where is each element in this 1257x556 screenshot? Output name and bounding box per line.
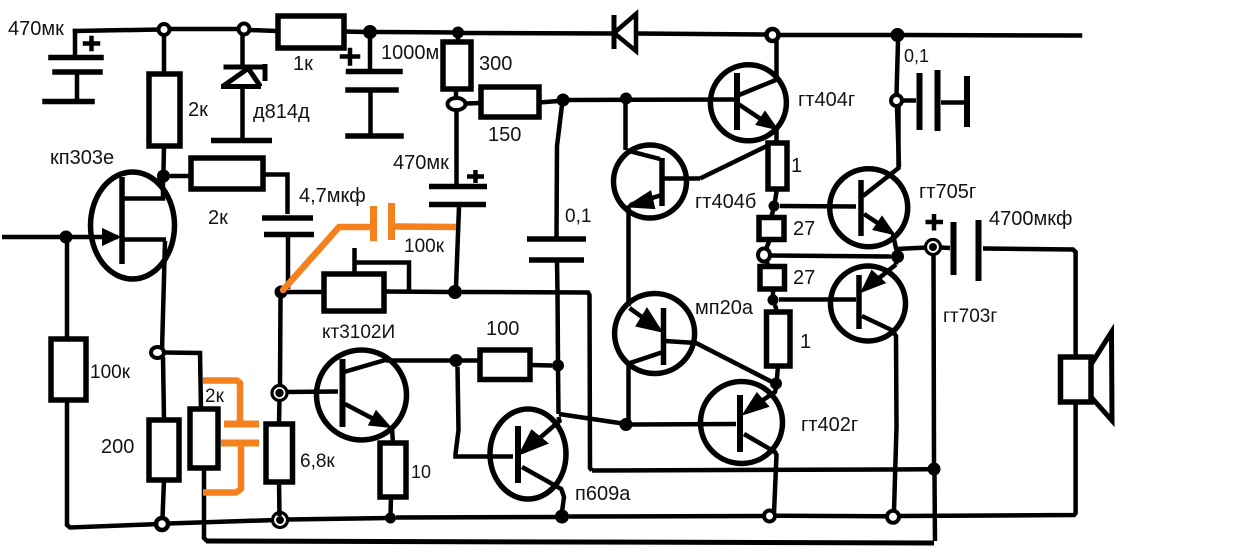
resistor R11 10 [380, 443, 406, 497]
transistor Q3 emitter arrow [757, 113, 776, 129]
wire node Z to гт703г base [779, 297, 856, 302]
wire node to R300 top [456, 36, 461, 42]
wire R16 to node AA [777, 366, 778, 378]
resistor R7 2к bottom [190, 409, 218, 468]
transistor Q1 кп303е body [91, 172, 175, 279]
node Z filled (773,300) [768, 295, 779, 306]
capacitor C2 1000м plate 2 [348, 87, 396, 93]
wire input node down to R6 [65, 243, 70, 339]
svg-text:27: 27 [793, 218, 815, 240]
transistor Q9 collector [522, 467, 564, 512]
speaker LS1 horn [1091, 332, 1112, 421]
transistor Q2 emitter arrow [370, 412, 389, 427]
orange capacitor mod2 plate 2 [221, 440, 259, 447]
wire node100 to base гт404г [569, 97, 733, 102]
node V filled (456,360.5) [450, 354, 463, 367]
transistor Q2 кт3102И body [317, 350, 407, 440]
transistor Q2 base bar [340, 359, 346, 427]
wire vertical x280 [278, 297, 283, 387]
orange capacitor mod2 plate 1 [224, 421, 259, 428]
zener VD1 cathode hook [263, 64, 268, 81]
wire Q3 emitter to R13 [774, 128, 779, 142]
svg-text:100к: 100к [90, 362, 131, 383]
transistor Q3 collector [739, 40, 777, 95]
transistor Q1 gate arrow [103, 230, 119, 245]
node AE dotring (933,247) [926, 240, 941, 255]
wire source node branch right [164, 353, 201, 411]
node I filled (626,98) [620, 93, 632, 105]
node F filled (897.5,35) [891, 28, 905, 42]
svg-text:4700мкф: 4700мкф [989, 208, 1072, 230]
wire vertical x935 lower [932, 475, 937, 541]
wire R5 to C6 lead [263, 175, 288, 215]
transistor Q5 emitter [630, 308, 660, 330]
resistor R16 1 [767, 312, 791, 366]
node R open (893,516.8) [887, 511, 899, 523]
transistor Q8 гт703г body [831, 266, 906, 341]
wire node to node [376, 30, 458, 35]
wire rail B seg4 [569, 514, 764, 519]
resistor R9 6,8к [266, 424, 293, 482]
node Q open (769.5,516) [764, 511, 775, 522]
svg-text:1к: 1к [293, 53, 313, 75]
node D filled (458,32.5) [452, 27, 464, 39]
capacitor C2 1000м end bar [348, 133, 401, 139]
wire R11 bottom lead [388, 497, 393, 514]
svg-text:0,1: 0,1 [565, 206, 591, 227]
capacitor C6 bottom lead [286, 237, 291, 289]
resistor R13 1 [768, 143, 787, 189]
transistor Q6 emitter arrow [745, 395, 767, 414]
svg-text:1: 1 [800, 331, 811, 353]
svg-text:4,7мкф: 4,7мкф [299, 185, 366, 207]
wire diode to node [638, 34, 766, 35]
wire vertical x558 [557, 262, 559, 414]
transistor Q1 source lead [124, 240, 166, 352]
wire R150 to node100 [539, 101, 558, 103]
node W filled (558,365.5) [552, 360, 564, 372]
transistor Q3 гт404г body [710, 65, 786, 141]
wire top right end [904, 33, 1080, 38]
wire node X to гт705г base [780, 204, 856, 209]
wire node104 to R150 [466, 101, 481, 106]
node Y open (764,255) [758, 249, 770, 262]
transistor Q5 мп20а body [615, 294, 695, 374]
svg-text:кт3102И: кт3102И [322, 322, 395, 343]
zener VD1 bottom lead [240, 89, 245, 138]
svg-text:гт402г: гт402г [801, 414, 858, 436]
wire node1 down to R1 [162, 34, 167, 74]
node T filled (281,292) [275, 286, 288, 299]
capacitor C2 1000м bottom lead [368, 92, 373, 133]
transistor Q6 emitter [748, 388, 776, 410]
wire node Y to R15 [766, 261, 769, 267]
transistor Q8 emitter arrow [863, 272, 884, 291]
wire node to node top right [779, 33, 891, 38]
wire node100 down to C5 [557, 105, 563, 237]
wire R9 top lead [277, 398, 282, 424]
resistor R15 27 [760, 267, 785, 290]
zener VD1 anode triangle [221, 69, 261, 87]
wire output node to cap node [896, 248, 927, 250]
transistor Q2 collector [344, 360, 450, 373]
resistor R1 2к vertical [149, 74, 180, 146]
wire rail B seg5 [775, 514, 887, 519]
wire rail C bottom [206, 541, 934, 543]
svg-text:470мк: 470мк [393, 152, 449, 174]
wire node V down to п609а base [456, 367, 514, 457]
node J filled input (66,237) [60, 231, 73, 244]
transistor Q3 base bar [734, 73, 740, 130]
svg-text:п609а: п609а [575, 483, 631, 505]
transistor Q5 base bar [661, 308, 667, 365]
capacitor C2 1000м plate 1 [349, 69, 401, 75]
wire Q4 emitter down to мп20а [626, 206, 631, 306]
wire rail A [592, 469, 929, 470]
wire rail B seg6 to speaker [899, 403, 1076, 516]
svg-text:0,1: 0,1 [904, 46, 929, 66]
wire gate node to bar [66, 235, 118, 240]
node AD output filled (897.5,256.5) [891, 250, 904, 263]
wire C8 to speaker top [983, 249, 1076, 357]
resistor R6 100к [51, 339, 86, 400]
svg-text:200: 200 [101, 436, 134, 458]
node H filled (563,100) [557, 94, 570, 107]
capacitor C6 4,7мкф plate 2 [264, 232, 314, 238]
resistor R14 27 [759, 218, 784, 240]
node S dotring (279.5,393) [272, 386, 287, 401]
node X filled (774,206) [769, 201, 780, 212]
transistor Q4 emitter [630, 196, 660, 206]
node E open (772.5,35) [767, 29, 779, 41]
transistor Q5 base lead diagonal [665, 341, 776, 384]
transistor Q6 base bar [737, 395, 743, 452]
node O filled (390.5,518) [385, 513, 396, 524]
svg-text:гт404г: гт404г [798, 89, 855, 111]
capacitor C7 0,1 plate 1 [917, 73, 923, 130]
node A open (164,29.5) [159, 24, 170, 35]
wire node U to corner x589 [462, 292, 592, 471]
orange wire diagonal and left lead [283, 227, 370, 290]
transistor Q4 гт404б body [614, 145, 687, 218]
orange capacitor mod2 stub [203, 446, 241, 493]
wire node Z to R16 [775, 305, 777, 312]
svg-text:100к: 100к [404, 236, 445, 257]
zener VD1 д814д cathode bar [224, 65, 268, 70]
wire п609а emitter junction to node AB [559, 414, 626, 424]
capacitor C3 470мк mid plate 1 [429, 184, 487, 190]
wire R1 bottom to node [161, 146, 166, 170]
wire Q2 emitter to R11 [392, 429, 393, 443]
capacitor C1 470мк plate 2 [55, 69, 100, 75]
transistor Q6 гт402г body [701, 382, 783, 464]
wire rail B seg2 [287, 518, 387, 520]
wire R8 top lead [163, 357, 164, 420]
wire zener top lead [240, 33, 245, 64]
transistor Q5 emitter arrow [638, 310, 661, 331]
transistor Q9 п609а body [490, 409, 566, 499]
capacitor C1 470мк end bar [45, 99, 92, 105]
node C filled (370,32) [363, 25, 377, 39]
transistor Q7 base bar [858, 180, 864, 236]
wire R7 down to bottom rail [204, 468, 207, 541]
transistor Q4 base bar [659, 158, 665, 206]
wire node AB to гт402г base [632, 422, 736, 427]
wire node S to кт3102 base [286, 389, 338, 394]
transistor Q4 emitter arrow [629, 193, 654, 208]
wire node X to R14 [771, 211, 773, 218]
orange capacitor mod plate 2 [388, 203, 395, 240]
node K filled (163.5,176) [157, 170, 170, 183]
svg-text:2к: 2к [188, 99, 208, 121]
transistor Q8 base bar [856, 275, 862, 329]
zener VD1 end bar [211, 138, 272, 144]
transistor Q9 emitter arrow [522, 432, 546, 453]
wire diag гт404б base to Q3 emitter [700, 142, 776, 179]
resistor R5 2к horizontal [191, 158, 263, 189]
resistor R8 200 [149, 420, 179, 480]
wire input [2, 235, 62, 240]
svg-text:300: 300 [479, 53, 512, 75]
wire R12 to node W [530, 363, 552, 368]
transistor Q1 gate bar [119, 177, 125, 264]
wire pot to node U [384, 289, 450, 294]
wire 1k right node down to C2 [368, 38, 373, 70]
resistor R4 150 [481, 87, 539, 117]
wire node Y to output node [771, 256, 891, 257]
transistor Q2 emitter [345, 404, 386, 426]
transistor Q8 collector [862, 316, 897, 511]
node N dotring (280,520) [273, 513, 288, 528]
capacitor C1 470мк plate 1 [51, 55, 101, 61]
polarity plus C3 [467, 170, 484, 183]
resistor R3 300 [443, 42, 471, 89]
wire R8 bottom lead [163, 480, 165, 518]
svg-text:гт705г: гт705г [919, 181, 976, 203]
wire top rail segment 1 [75, 30, 159, 32]
wire top rail segment 3 [249, 30, 278, 31]
wire R14 to node Y [766, 240, 770, 250]
transistor Q7 emitter [864, 214, 889, 231]
transistor Q8 emitter [868, 252, 897, 287]
polarity plus C8 [926, 214, 944, 231]
node B open (244,29) [239, 24, 250, 35]
wire node AC down to Q7 collector [897, 106, 899, 167]
potentiometer R10 wiper [355, 248, 410, 290]
capacitor C3 470мк mid plate 2 [429, 202, 486, 208]
wire R6 down to rail corner [67, 400, 160, 528]
wire vertical x935 upper [931, 254, 936, 463]
wire R15 to node Z [771, 289, 776, 295]
transistor Q4 base lead [664, 176, 700, 181]
node L ring (162,524) [156, 518, 168, 530]
svg-text:10: 10 [411, 462, 431, 482]
transistor Q7 emitter arrow [874, 218, 893, 234]
node AA filled (776,383.5) [770, 378, 782, 390]
wire node T to pot [287, 290, 324, 295]
svg-text:мп20а: мп20а [695, 297, 754, 319]
diode D1 cathode bar [612, 15, 617, 49]
wire top rail segment 2 [169, 27, 239, 32]
svg-text:150: 150 [488, 124, 521, 146]
capacitor C7 right lead [941, 100, 964, 105]
speaker LS1 box [1061, 357, 1092, 402]
resistor R12 100 [480, 350, 530, 380]
transistor Q3 emitter [739, 105, 772, 127]
capacitor C1 470мк top lead [73, 31, 78, 56]
transistor Q5 collector [629, 352, 664, 421]
svg-text:гт703г: гт703г [943, 306, 997, 327]
transistor Q4 collector [626, 104, 661, 159]
wire Q7 emitter to output node [893, 234, 898, 252]
transistor Q6 collector [744, 434, 777, 513]
wire 1k to node [344, 29, 364, 34]
svg-text:кп303е: кп303е [50, 147, 114, 169]
wire top right node down [897, 41, 899, 95]
svg-text:гт404б: гт404б [695, 191, 756, 213]
wire rail B seg3 [396, 515, 557, 520]
capacitor C8 4700мкф plate 1 [951, 222, 957, 275]
svg-text:470мк: 470мк [8, 18, 64, 40]
polarity plus C1 [85, 38, 98, 49]
node AF filled (934,469) [928, 463, 941, 476]
capacitor C5 0,1 mid plate 1 [527, 236, 586, 242]
capacitor C6 4,7мкф plate 1 [262, 215, 313, 221]
capacitor C7 0,1 lead [902, 98, 916, 103]
svg-text:27: 27 [793, 267, 815, 289]
wire R9 bottom lead [277, 482, 282, 516]
wire rail B seg1 [168, 520, 276, 524]
transistor Q1 drain lead [122, 181, 163, 199]
svg-text:1000м: 1000м [381, 42, 439, 64]
orange wire right lead [395, 223, 456, 230]
transistor Q9 emitter [527, 417, 560, 449]
capacitor C3 bottom lead [456, 207, 459, 287]
node G open ellipse (456.5,104) [448, 98, 466, 110]
resistor R2 1к [278, 16, 344, 48]
wire R300 bottom lead [454, 89, 459, 97]
transistor Q7 гт705г body [830, 169, 908, 247]
capacitor C7 0,1 plate 2 [935, 70, 941, 131]
wire node V to R12 [462, 358, 480, 363]
capacitor C5 0,1 mid plate 2 [529, 257, 584, 263]
capacitor C7 end bar [964, 76, 970, 127]
wire node104 down to C4 [454, 110, 459, 185]
potentiometer R10 body [324, 274, 384, 311]
svg-text:1: 1 [791, 155, 802, 177]
svg-text:2к: 2к [208, 207, 228, 229]
polarity plus C2 [342, 50, 358, 64]
node P filled (562,516.5) [555, 510, 569, 524]
svg-text:100: 100 [486, 318, 519, 340]
wire R13 to node X [775, 189, 777, 201]
node AB filled (626,424.5) [620, 418, 633, 431]
transistor Q7 collector [863, 106, 899, 196]
diode D1 triangle [614, 14, 636, 51]
capacitor C8 4700мкф plate 2 [976, 220, 982, 281]
orange wire bottom branch [203, 381, 240, 422]
orange capacitor mod plate 1 [370, 206, 377, 241]
svg-text:6,8к: 6,8к [300, 451, 335, 472]
capacitor C1 470мк bottom lead [75, 74, 80, 100]
wire node K to R5 [170, 174, 191, 179]
node M open (157.5,352.5) [151, 347, 164, 358]
transistor Q9 base bar [515, 426, 521, 483]
svg-text:2к: 2к [205, 386, 225, 407]
svg-text:д814д: д814д [253, 101, 310, 123]
wire node AE to C8 [940, 245, 950, 250]
node U filled (455,292) [448, 285, 462, 299]
wire node to diode [462, 31, 611, 36]
node AC open (896.5,100) [891, 95, 902, 106]
